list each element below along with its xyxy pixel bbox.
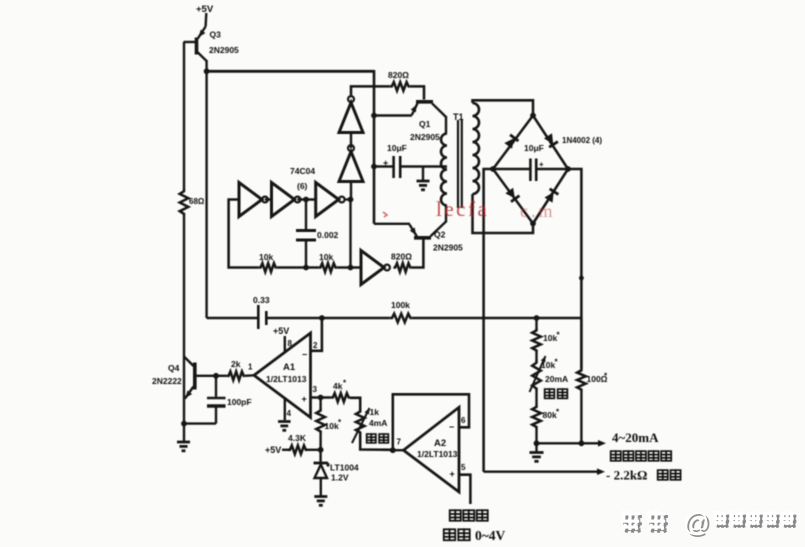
- svg-text:1.2V: 1.2V: [331, 473, 349, 483]
- wire: emitter Q2 feed: [374, 223, 410, 225]
- svg-text:Q2: Q2: [434, 229, 446, 239]
- wire: bridge left rail (x=483.6): [484, 169, 493, 472]
- svg-text:+5V: +5V: [196, 4, 214, 15]
- diode D2 (upper right): [544, 133, 558, 147]
- wire: 0.33 to 100k: [266, 315, 390, 321]
- diode D3 (lower left): [505, 187, 519, 201]
- 20mA pot labels: [541, 358, 568, 385]
- wire: A2 feedback loop: [393, 394, 469, 450]
- wire: x=374 rail (osc to Q1/Q2): [373, 70, 376, 224]
- wire: osc bottom mid: [277, 265, 319, 271]
- svg-text:2N2905: 2N2905: [209, 45, 239, 55]
- wire: pin2 feedback: [311, 318, 322, 351]
- svg-text:4~20mA: 4~20mA: [612, 430, 659, 445]
- svg-text:2N2222: 2N2222: [152, 376, 182, 386]
- svg-text:−: −: [449, 422, 454, 432]
- wire: osc loop left: [229, 200, 259, 268]
- watermark toutiao: [621, 507, 797, 539]
- svg-text:10μF: 10μF: [387, 143, 407, 153]
- wire: 100k to right rail: [412, 315, 582, 321]
- svg-text:2N2905: 2N2905: [433, 243, 463, 253]
- inverter U1e (vertical upper): [339, 96, 363, 132]
- 1k 4mA labels: [369, 407, 387, 428]
- svg-text:820Ω: 820Ω: [388, 70, 409, 80]
- svg-text:1/2LT1013: 1/2LT1013: [266, 374, 307, 384]
- svg-text:1k: 1k: [370, 407, 380, 417]
- transformer T1 secondary winding: [473, 103, 480, 194]
- svg-text:Q1: Q1: [419, 119, 431, 129]
- Q3 label: [209, 30, 239, 56]
- resistor 100k: [390, 314, 412, 323]
- wire: 820ohm to Q1 base: [410, 86, 424, 99]
- svg-text:- 2.2kΩ: - 2.2kΩ: [606, 468, 647, 483]
- LT1004 label: [330, 463, 359, 483]
- wire: output+ arrow: [537, 440, 607, 447]
- +5V supply label (top): [196, 4, 214, 15]
- svg-text:A2: A2: [434, 438, 446, 449]
- wire: centre tap right seg: [400, 165, 447, 167]
- wire: pin3 input: [311, 385, 331, 400]
- svg-text:10k: 10k: [325, 421, 339, 431]
- resistor 820ohm (bottom): [393, 263, 411, 272]
- capacitor 0.33: [258, 305, 266, 329]
- wire: centre tap left seg: [371, 164, 393, 170]
- svg-text:+5V: +5V: [273, 326, 289, 336]
- tiao-jie label (4mA adjust): [367, 433, 389, 443]
- wire: pin8: [285, 336, 293, 353]
- svg-text:68Ω: 68Ω: [189, 197, 205, 206]
- Q4 label: [152, 363, 182, 386]
- 10k* label (A1): [325, 418, 343, 431]
- 10uF left label: [387, 143, 407, 153]
- ground (A1 pin4): [278, 422, 291, 431]
- wire: x206 rail corner to 0.33: [207, 317, 257, 320]
- Q1 label: [410, 119, 440, 142]
- wire: Q3 base rail down (x=184): [183, 42, 185, 189]
- svg-text:7: 7: [397, 438, 402, 447]
- 2k label: [231, 359, 241, 369]
- wire: output- arrow: [484, 468, 605, 475]
- wire: pin1 output: [245, 363, 254, 376]
- op-amp A2 1/2LT1013: [404, 407, 460, 492]
- ground (zener): [314, 497, 327, 506]
- 10k right label: [319, 252, 333, 262]
- svg-text:100pF: 100pF: [227, 397, 252, 407]
- ground (chain): [530, 443, 544, 461]
- svg-text:2k: 2k: [231, 359, 241, 369]
- resistor 820ohm (top): [390, 82, 410, 91]
- wire: chain mid1: [535, 352, 537, 360]
- svg-text:3: 3: [313, 385, 318, 394]
- svg-text:10k: 10k: [541, 360, 555, 370]
- wire: 100pF to rail: [181, 421, 216, 427]
- wire: +5V to 4.3k: [282, 449, 288, 451]
- resistor 80k* (chain): [532, 405, 541, 429]
- svg-text:+5V: +5V: [265, 445, 281, 455]
- +5V label (A1 pin8): [273, 326, 289, 336]
- svg-text:+: +: [539, 160, 544, 169]
- wire: osc bottom to inv4: [337, 265, 361, 271]
- 2.2k max label: [606, 468, 681, 483]
- tiao-jie label (20mA adjust): [545, 388, 568, 398]
- svg-text:Q4: Q4: [168, 363, 180, 373]
- svg-text:+: +: [383, 158, 388, 168]
- wire: node B down: [349, 200, 351, 268]
- svg-text:2N2905: 2N2905: [410, 132, 440, 142]
- svg-text:1: 1: [248, 363, 253, 372]
- Q2 label: [433, 229, 463, 252]
- svg-text:4mA: 4mA: [369, 418, 387, 428]
- 1N4002 label: [562, 136, 602, 145]
- svg-text:2: 2: [313, 341, 318, 350]
- ground (centre tap): [417, 167, 430, 190]
- svg-text:−: −: [302, 350, 307, 360]
- diode D1 (upper left): [504, 135, 518, 149]
- wire: secondary top to bridge: [473, 100, 534, 115]
- 68ohm label: [189, 197, 205, 206]
- wire: chain bottom: [534, 429, 540, 447]
- op-amp A1 1/2LT1013: [254, 333, 311, 418]
- 80k* label: [543, 408, 561, 421]
- 820ohm top label: [388, 70, 409, 80]
- wire: pin4 ground: [285, 399, 292, 421]
- svg-text:c.m: c.m: [520, 201, 556, 221]
- svg-text:5: 5: [461, 463, 466, 472]
- wire: 4k to pot: [350, 398, 360, 409]
- svg-text:10k: 10k: [319, 252, 333, 262]
- transistor Q3 2N2905: [184, 13, 207, 71]
- potentiometer 10k* 20mA: [530, 355, 548, 392]
- 100ohm label: [587, 372, 609, 385]
- capacitor 10uF (bridge): [493, 159, 568, 182]
- 4k* label: [333, 379, 347, 392]
- 0.002 label: [317, 230, 339, 240]
- svg-text:4k: 4k: [333, 381, 343, 391]
- svg-text:0~4V: 0~4V: [475, 528, 506, 543]
- svg-text:6: 6: [461, 416, 466, 425]
- svg-text:+: +: [450, 469, 455, 479]
- node: bridge bottom: [530, 221, 536, 227]
- 820ohm bottom label: [391, 252, 412, 262]
- +5V label (4.3k): [265, 445, 281, 455]
- wire: secondary bottom to bridge: [473, 194, 534, 233]
- wire: emitter Q1 feed: [371, 113, 412, 119]
- node B (inv3 out): [346, 197, 354, 203]
- transformer T1 primary winding: [441, 134, 447, 206]
- output-to-load label (CJK): [611, 450, 672, 461]
- wire: A2 pin5 input: [459, 463, 470, 504]
- resistor 4.3k: [288, 446, 307, 455]
- node: Q3 collector junction: [204, 68, 210, 74]
- capacitor 10uF (left): [383, 156, 400, 178]
- svg-text:0.002: 0.002: [317, 230, 339, 240]
- resistor 2k: [227, 372, 245, 381]
- 100k label: [391, 300, 410, 310]
- node: A2 output: [390, 438, 404, 454]
- inverter U1d (vertical lower): [339, 145, 363, 181]
- svg-text:820Ω: 820Ω: [391, 252, 412, 262]
- resistor 10k* (chain): [532, 328, 541, 352]
- zener LT1004-1.2: [314, 450, 329, 496]
- inverter U1b: [272, 183, 301, 217]
- wire: chain top: [535, 318, 537, 328]
- wire: chain mid2: [535, 391, 537, 405]
- input 0-4V label: [444, 528, 506, 543]
- sensor label (CJK): [450, 509, 488, 521]
- inverter U1a: [239, 183, 268, 217]
- svg-text:80k: 80k: [543, 410, 557, 420]
- inverter U1c: [316, 183, 345, 217]
- diode D4 (lower right): [544, 189, 558, 203]
- resistor 68ohm: [180, 189, 189, 216]
- svg-text:LT1004: LT1004: [330, 463, 359, 473]
- svg-text:10k: 10k: [259, 252, 273, 262]
- wire: inv up join: [350, 182, 352, 200]
- transformer T1 core: [458, 120, 462, 208]
- 100pF label: [227, 397, 252, 407]
- 10k* chain label: [543, 331, 561, 344]
- wire: bridge right rail (x=581.4): [568, 169, 581, 368]
- svg-text:(6): (6): [297, 181, 308, 191]
- wire: inverter top to 820ohm: [351, 86, 390, 95]
- wire: inv1-inv2: [265, 198, 272, 200]
- resistor 10k (osc right): [319, 263, 337, 272]
- node: bridge right: [565, 166, 571, 172]
- capacitor 0.002: [296, 200, 316, 268]
- svg-text:1N4002 (4): 1N4002 (4): [562, 136, 602, 145]
- T1 label: [453, 112, 464, 122]
- wire: 4.3k to zener node: [307, 447, 324, 453]
- resistor 10k (osc left): [259, 263, 277, 272]
- red watermark lecfa: [436, 197, 556, 221]
- svg-text:@: @: [683, 507, 709, 537]
- wire: 820 to Q2 base: [411, 240, 423, 268]
- svg-text:0.33: 0.33: [253, 295, 270, 305]
- svg-text:10μF: 10μF: [524, 143, 544, 153]
- diode bridge frame: [493, 116, 568, 224]
- resistor 4k*: [331, 393, 350, 402]
- wire: pot bottom to A2 node: [360, 434, 392, 450]
- 10k left label: [259, 252, 273, 262]
- node: right rail blob: [579, 276, 584, 281]
- 4.3k label: [288, 433, 307, 443]
- inverter U1f (buffer to Q2): [361, 251, 390, 285]
- wire: top bus y=71: [206, 70, 375, 73]
- wire: 2k to Q4 base: [197, 373, 227, 379]
- 4-20mA label: [612, 430, 659, 445]
- red speck: [383, 212, 387, 217]
- wire: rail continues to Q4/ground: [183, 216, 185, 425]
- transistor Q2 2N2905: [410, 206, 447, 238]
- transistor Q4 2N2222: [183, 357, 195, 400]
- 0.33 label: [253, 295, 270, 305]
- svg-text:20mA: 20mA: [545, 374, 568, 384]
- ground (Q4 emitter rail): [177, 424, 190, 451]
- svg-text:74C04: 74C04: [290, 166, 315, 176]
- svg-text:A1: A1: [283, 362, 296, 373]
- svg-text:4: 4: [287, 409, 292, 418]
- resistor 100ohm* (output): [577, 318, 586, 446]
- svg-text:10k: 10k: [543, 333, 557, 343]
- svg-text:Q3: Q3: [210, 30, 222, 40]
- 10uF bridge label: [524, 143, 544, 153]
- capacitor 100pF: [207, 376, 226, 424]
- transistor Q1 2N2905: [411, 102, 446, 134]
- svg-text:+: +: [302, 394, 307, 404]
- node A (inv2 out): [297, 197, 315, 203]
- wire: inv stack join: [350, 133, 352, 149]
- svg-text:4.3K: 4.3K: [288, 433, 307, 443]
- node: bridge left: [490, 166, 496, 172]
- svg-text:100k: 100k: [391, 300, 410, 310]
- resistor 10k* (A1 pin3): [316, 398, 325, 451]
- potentiometer 1k 4mA: [352, 407, 372, 443]
- 74C04 label: [290, 166, 315, 191]
- wire: Q3 collector rail down (x=206.6): [205, 71, 207, 318]
- svg-text:1/2LT1013: 1/2LT1013: [417, 449, 458, 459]
- node: bridge top: [530, 113, 536, 119]
- svg-text:lecfa: lecfa: [436, 197, 489, 221]
